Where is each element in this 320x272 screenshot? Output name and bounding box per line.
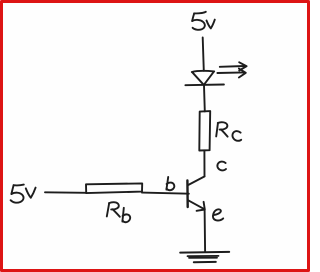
terminal label b — [166, 177, 174, 190]
transistor Q1 (NPN) — [187, 176, 204, 210]
wire from Rb to base — [142, 193, 189, 194]
wire from LED cathode to Rc — [203, 85, 206, 111]
ground symbol — [180, 252, 229, 262]
LED D1 (diode triangle with cathode bar) — [185, 71, 224, 85]
resistor Rc (box) — [199, 111, 210, 150]
wire from Rc to collector — [203, 151, 205, 177]
net label 5V (left supply) — [11, 185, 36, 203]
terminal label e — [213, 209, 223, 220]
wire from 5V to LED anode — [203, 38, 204, 71]
value label Rb — [107, 202, 130, 222]
LED light emission arrow 1 — [220, 62, 247, 70]
wire from left 5V to Rb — [45, 191, 86, 194]
terminal label c — [217, 162, 226, 171]
net label 5V (top supply) — [192, 12, 215, 30]
resistor Rb (box) — [86, 183, 142, 193]
LED light emission arrow 2 — [217, 69, 245, 78]
value label Rc — [216, 122, 241, 141]
wire emitter to ground — [204, 210, 207, 252]
